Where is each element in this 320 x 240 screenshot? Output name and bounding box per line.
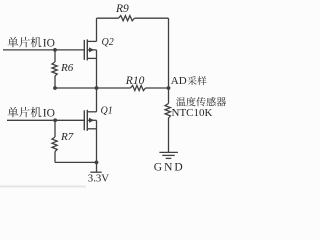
svg-text:3.3V: 3.3V: [88, 173, 109, 185]
svg-text:NTC10K: NTC10K: [172, 107, 213, 119]
svg-text:Q2: Q2: [102, 37, 114, 48]
svg-text:R9: R9: [115, 3, 129, 15]
svg-text:IO: IO: [43, 108, 55, 120]
svg-text:R7: R7: [60, 131, 74, 143]
svg-text:R6: R6: [60, 62, 74, 74]
svg-text:Q1: Q1: [101, 105, 113, 116]
svg-text:R10: R10: [125, 75, 145, 87]
svg-text:GND: GND: [154, 162, 185, 174]
svg-text:AD: AD: [171, 75, 187, 87]
svg-text:IO: IO: [43, 38, 55, 50]
